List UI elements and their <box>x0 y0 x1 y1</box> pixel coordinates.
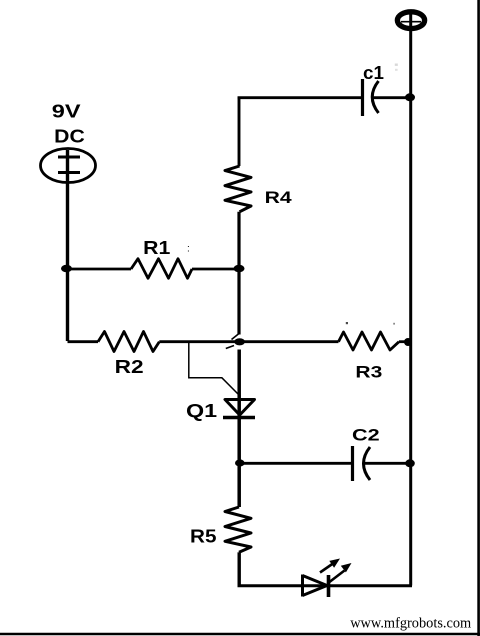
node dot c1 junction <box>405 93 415 101</box>
LED D1 triangle <box>303 575 328 597</box>
battery V1 9V DC source circle <box>41 149 96 183</box>
wire R1 right lead <box>192 268 240 271</box>
svg-text:www.mfgrobots.com: www.mfgrobots.com <box>350 616 471 632</box>
node dot R1 right junction <box>234 265 245 273</box>
terminal ring output <box>397 12 424 29</box>
transistor Q1 triangle <box>225 400 255 416</box>
svg-text:Q1: Q1 <box>186 401 217 421</box>
battery plus bar lower <box>58 171 80 174</box>
node dot C2 right junction <box>405 459 415 467</box>
svg-text:R2: R2 <box>115 357 144 377</box>
svg-text:R4: R4 <box>265 188 293 207</box>
wire battery center and left rail down to R2 line <box>66 150 69 341</box>
svg-text:R3: R3 <box>355 363 382 382</box>
transistor Q1 bar <box>223 416 255 420</box>
transistor Q1 collector jog diagonal <box>232 334 240 340</box>
wire C2 right lead <box>364 462 412 465</box>
wire top horizontal from R4 branch to c1 <box>238 96 361 99</box>
wire R1 left lead <box>67 268 131 271</box>
resistor R1 zigzag <box>131 259 192 279</box>
capacitor C2 left plate <box>351 446 354 481</box>
capacitor c1 left plate <box>361 79 364 116</box>
wire bottom rail <box>238 584 413 587</box>
artifact speck right of R3 <box>393 323 395 325</box>
svg-text::: : <box>187 244 190 255</box>
wire R4 branch vertical upper <box>238 97 241 167</box>
resistor R3 zigzag <box>339 332 400 350</box>
border right <box>477 0 480 636</box>
svg-text:DC: DC <box>54 127 85 147</box>
wire junction to R3 <box>239 340 339 343</box>
wire c1 right lead <box>373 96 412 99</box>
resistor R5 zigzag <box>225 507 251 552</box>
wire R3 right lead <box>399 340 411 343</box>
svg-text:c1: c1 <box>363 63 384 83</box>
border bottom <box>0 633 480 636</box>
svg-text:9V: 9V <box>52 101 81 121</box>
capacitor c1 right curved plate <box>372 81 378 113</box>
LED D1 arrow 1 <box>320 559 340 573</box>
wire below junction through Q1 to R5 <box>237 350 241 508</box>
artifact ghost near c1 <box>395 64 398 66</box>
battery plus bar upper <box>58 156 80 159</box>
svg-text:R1: R1 <box>143 238 170 258</box>
wire base row left segment to R2 <box>68 340 99 343</box>
wire right rail <box>409 12 412 586</box>
LED D1 arrow 2 <box>328 563 352 584</box>
node dot transistor junction <box>234 338 245 345</box>
wire C2 left lead <box>240 462 351 465</box>
node dot R3 right junction <box>404 338 412 346</box>
resistor R4 zigzag <box>225 166 251 212</box>
resistor R2 zigzag <box>98 332 159 352</box>
capacitor C2 right curved plate <box>364 447 371 480</box>
LED D1 cathode bar <box>327 575 331 597</box>
transistor Q1 emitter diagonal <box>226 346 234 349</box>
node dot C2 left junction <box>235 459 245 466</box>
artifact speck left of R3 <box>346 322 348 324</box>
wire R4 bottom to collector <box>237 212 240 335</box>
wire R2 to transistor junction <box>159 340 239 343</box>
wire Q1 base thin wire <box>189 343 241 397</box>
svg-text:R5: R5 <box>190 527 217 547</box>
svg-text:C2: C2 <box>352 425 380 444</box>
node dot R1 left junction <box>61 265 72 273</box>
terminal horizontal line <box>401 21 421 23</box>
wire R5 bottom lead <box>237 552 240 585</box>
